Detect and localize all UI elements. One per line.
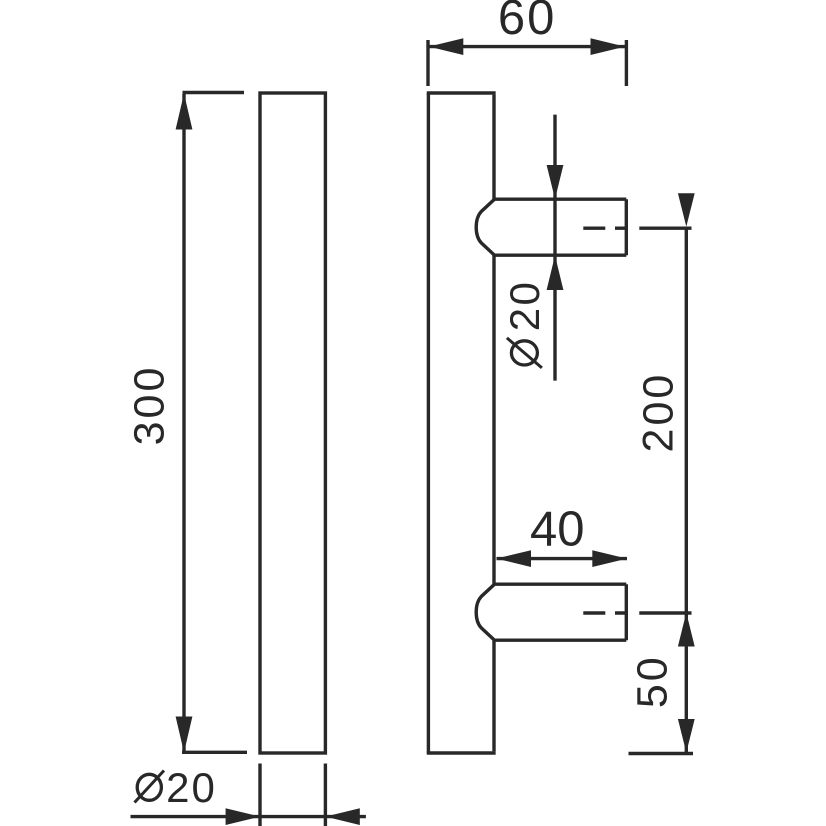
dimension 50 arrow bottom [678, 719, 695, 753]
svg-text:40: 40 [530, 503, 585, 557]
label Ø20 side: diameter slash [507, 338, 542, 368]
svg-text:20: 20 [166, 764, 217, 811]
Ø20 front arrow right [226, 808, 260, 825]
dimension 300 arrow up [176, 94, 193, 130]
dimension 60 arrow left [429, 38, 464, 55]
svg-text:20: 20 [501, 280, 548, 332]
dimension 300 arrow down [176, 717, 193, 753]
dimension 50 bottom tick [629, 752, 694, 755]
dimension 50 line [685, 612, 688, 753]
Ø20 side arrow up [547, 256, 564, 291]
front view bar outline [260, 93, 325, 753]
Ø20 front dimension line [131, 815, 366, 818]
Ø20 front arrow left [325, 808, 359, 825]
side view rail right edge middle segment [492, 255, 495, 584]
dimension 200 line [685, 227, 688, 611]
Ø20 front left extension line [258, 764, 261, 826]
upper post center line dash-dot [583, 226, 691, 229]
dimension 60 arrow right [591, 38, 626, 55]
label Ø20 front: diameter circle [137, 774, 161, 800]
dimension 300 line [182, 94, 185, 752]
side view rail right edge upper segment [492, 95, 495, 200]
dimension 200/50 arrow middle [678, 613, 695, 647]
dimension 300 top extension line [183, 91, 245, 94]
svg-text:300: 300 [126, 365, 174, 446]
dimension 40 arrow left [496, 550, 531, 567]
dimension 40 line [497, 557, 628, 560]
svg-text:50: 50 [629, 654, 677, 708]
Ø20 side arrow down [547, 165, 564, 199]
svg-text:60: 60 [498, 0, 557, 45]
dimension 200 arrow top [678, 193, 695, 226]
dimension 40 arrow right [592, 550, 627, 567]
side view rail top edge [427, 91, 496, 94]
lower post center line dash-dot [583, 611, 691, 614]
label Ø20 front: diameter slash [135, 771, 165, 803]
side view rail right edge lower segment [492, 640, 495, 752]
upper mounting post outline [476, 199, 626, 255]
svg-text:200: 200 [635, 372, 683, 453]
Ø20 side dimension line [553, 115, 556, 381]
lower mounting post outline [476, 584, 626, 640]
Ø20 front right extension line [324, 764, 327, 826]
label Ø20 side: diameter circle [511, 341, 537, 365]
side view rail bottom edge [427, 751, 496, 754]
side view rail left edge [427, 93, 430, 753]
dimension 60 left extension line [426, 40, 429, 86]
dimension 60 right extension line [625, 40, 628, 86]
dimension 60 line [429, 45, 625, 48]
dimension 300 bottom extension line [182, 751, 247, 754]
